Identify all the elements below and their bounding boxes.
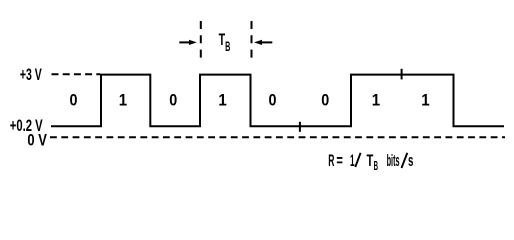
left arrowhead bbox=[189, 40, 197, 45]
svg-text:B: B bbox=[374, 158, 378, 173]
svg-text:1: 1 bbox=[119, 91, 127, 110]
svg-text:1: 1 bbox=[218, 91, 226, 110]
svg-text:0: 0 bbox=[169, 91, 177, 110]
right arrowhead bbox=[254, 40, 262, 45]
svg-text:bits: bits bbox=[387, 151, 400, 170]
svg-text:0 V: 0 V bbox=[27, 130, 47, 149]
svg-text:1: 1 bbox=[372, 91, 380, 110]
left arrow shaft bbox=[179, 41, 190, 43]
right arrow shaft bbox=[261, 41, 273, 43]
svg-text:1: 1 bbox=[350, 151, 355, 170]
0V level dashed line bbox=[50, 136, 505, 138]
TB marker right dashed vertical bbox=[251, 21, 253, 60]
svg-text:=: = bbox=[336, 151, 343, 170]
TB marker left dashed vertical bbox=[200, 21, 202, 60]
waveform wire bbox=[51, 75, 504, 127]
svg-text:1: 1 bbox=[421, 91, 429, 110]
svg-text:+3 V: +3 V bbox=[20, 65, 42, 84]
svg-text:0: 0 bbox=[269, 91, 277, 110]
svg-text:s: s bbox=[408, 151, 413, 170]
svg-text:0: 0 bbox=[70, 91, 78, 110]
formula slash 2 bbox=[402, 153, 408, 168]
svg-text:B: B bbox=[225, 39, 230, 54]
svg-text:R: R bbox=[328, 151, 334, 170]
tick mark between bits 7 and 8 (high line) bbox=[401, 69, 403, 80]
+3V level dashed line bbox=[52, 73, 101, 75]
tick mark between bits 5 and 6 (low line) bbox=[299, 122, 301, 132]
svg-text:0: 0 bbox=[321, 91, 329, 110]
formula slash bbox=[355, 153, 360, 167]
